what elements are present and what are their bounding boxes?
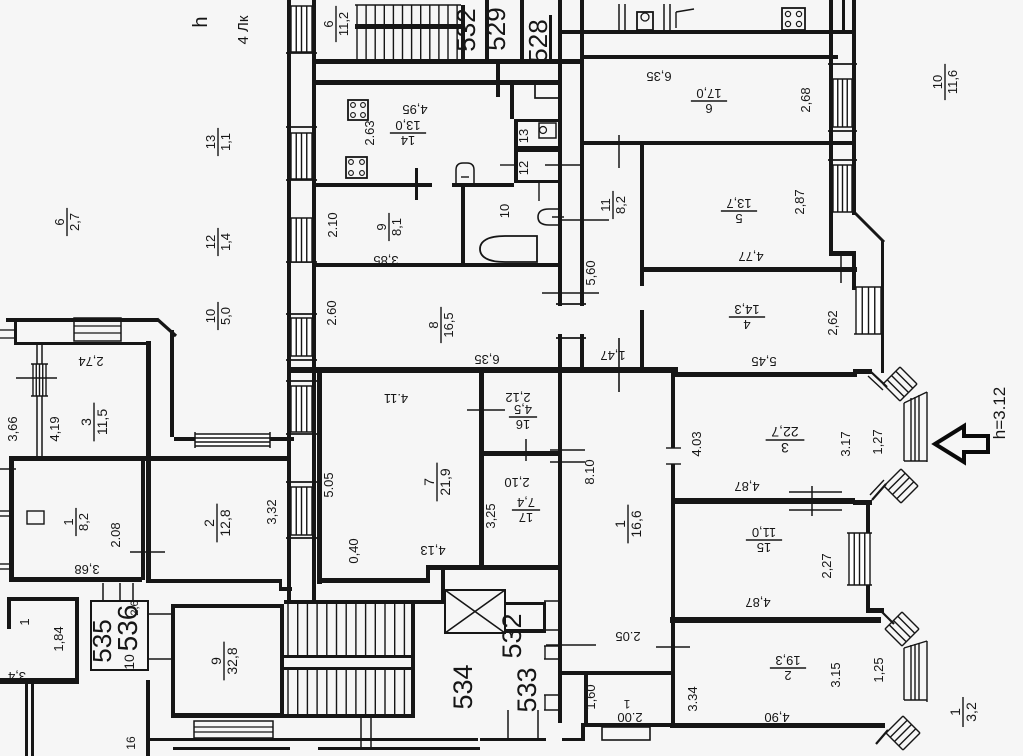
svg-text:0,40: 0,40 — [346, 538, 361, 563]
bathtub — [480, 236, 537, 262]
label 10/5.0 — [203, 302, 233, 330]
door tick corridor south — [546, 644, 596, 646]
tick room3 W — [16, 377, 57, 379]
elevator — [445, 590, 505, 633]
svg-text:532: 532 — [451, 8, 481, 51]
svg-text:11,6: 11,6 — [945, 70, 960, 94]
svg-text:4 Лк: 4 Лк — [235, 15, 252, 44]
bay3 top ledge — [853, 369, 872, 374]
label 6/2.7 — [52, 208, 82, 236]
svg-text:4,19: 4,19 — [47, 416, 62, 441]
svg-text:5: 5 — [735, 211, 742, 226]
north door — [675, 12, 677, 28]
svg-text:2,87: 2,87 — [792, 189, 807, 214]
svg-text:14: 14 — [401, 133, 415, 148]
svg-text:4,87: 4,87 — [734, 479, 759, 494]
label 5/13.7 — [721, 196, 757, 226]
svg-text:11,5: 11,5 — [94, 409, 110, 435]
right wall ties — [828, 63, 857, 65]
svg-text:13: 13 — [516, 129, 531, 143]
svg-text:1,25: 1,25 — [871, 657, 886, 682]
svg-text:9: 9 — [374, 223, 389, 230]
svg-text:11,2: 11,2 — [336, 12, 351, 36]
stairs bottom top wall — [284, 600, 445, 604]
svg-text:12: 12 — [516, 161, 531, 175]
svg-text:7: 7 — [421, 478, 437, 486]
wc13 toilet — [539, 123, 556, 138]
rooms 16/17 divider — [484, 451, 558, 456]
svg-text:h: h — [190, 16, 212, 27]
corridor1 bottom wall — [562, 671, 671, 675]
svg-text:14,3: 14,3 — [734, 302, 759, 317]
bay2 window on top diagonal — [885, 612, 919, 646]
svg-text:3,66: 3,66 — [5, 416, 20, 441]
window W band y218-262 — [291, 218, 312, 262]
svg-text:2.10: 2.10 — [325, 212, 340, 237]
svg-text:3,32: 3,32 — [264, 499, 279, 524]
west outer wall lower — [9, 458, 14, 580]
rooms 9/8 divider wall — [316, 263, 558, 267]
SW double wall — [25, 684, 28, 756]
label 7/21.9 — [421, 463, 453, 502]
corridor534 top walls — [505, 602, 546, 605]
svg-text:2.60: 2.60 — [324, 300, 339, 325]
wall x485 top — [485, 0, 489, 61]
svg-text:21,9: 21,9 — [437, 468, 453, 495]
label 2/12.8 — [201, 504, 233, 543]
svg-text:4,5: 4,5 — [514, 402, 532, 417]
svg-text:6,35: 6,35 — [474, 352, 499, 367]
svg-text:10: 10 — [203, 309, 218, 323]
balcony box room3 — [74, 318, 121, 341]
svg-text:3: 3 — [781, 440, 789, 456]
wall between rooms 15 and 2 — [670, 617, 881, 623]
label 12/1.4 — [203, 228, 233, 256]
kitchen stove 2 — [346, 157, 367, 178]
wall x520 top — [520, 0, 524, 61]
svg-text:10: 10 — [497, 204, 512, 218]
label 11/8.2 — [598, 191, 628, 219]
bay2 top ledge — [866, 608, 884, 613]
bay3 top corner diag — [870, 371, 887, 387]
wall x147 south — [146, 680, 150, 756]
svg-text:9: 9 — [208, 657, 224, 665]
svg-text:3,25: 3,25 — [483, 503, 498, 528]
window W band y318-356 — [291, 318, 312, 356]
label 13/1.1 — [203, 128, 233, 156]
room 7 bottom wall left — [317, 578, 430, 583]
label 1/16.6 — [612, 505, 644, 544]
vestibule ticks — [148, 613, 171, 615]
svg-text:5,60: 5,60 — [583, 260, 598, 285]
svg-text:8,2: 8,2 — [613, 196, 628, 214]
kitchen stove 1 — [348, 100, 368, 120]
svg-text:8,2: 8,2 — [76, 513, 91, 531]
north stove — [782, 8, 805, 30]
svg-text:3,2: 3,2 — [963, 702, 979, 722]
svg-text:2,10: 2,10 — [504, 475, 529, 490]
label 14/13.0 — [390, 118, 426, 148]
arrow h312 — [935, 426, 988, 462]
south outer walls — [148, 738, 478, 741]
svg-text:12,8: 12,8 — [217, 509, 233, 536]
label 2/19.3 — [770, 653, 806, 683]
stairs mid band — [284, 655, 415, 658]
svg-text:13: 13 — [203, 135, 218, 149]
dim marks at room3/15 wall — [789, 491, 842, 493]
svg-text:6: 6 — [705, 101, 712, 116]
svg-text:533: 533 — [512, 667, 542, 712]
svg-text:536: 536 — [112, 605, 143, 652]
west wing edge ticks — [0, 329, 14, 331]
north stub x619 — [618, 4, 620, 30]
svg-text:10: 10 — [121, 654, 137, 670]
dim tick x619 room6 — [618, 135, 620, 168]
room 5/4 divider wall — [644, 267, 857, 272]
window E y79-127 — [833, 79, 852, 127]
door lines south — [360, 718, 362, 747]
kitchen sink — [456, 163, 474, 184]
stairwell 4Lk hatch top — [355, 4, 461, 6]
svg-text:2: 2 — [201, 519, 217, 527]
window room2 top — [195, 434, 270, 446]
svg-text:8.10: 8.10 — [582, 459, 597, 484]
door tick room2 — [656, 646, 690, 648]
bay3 east window slanted caps — [904, 392, 927, 403]
room 4 right wall step — [829, 215, 833, 256]
svg-text:1,84: 1,84 — [51, 626, 66, 651]
svg-text:1: 1 — [17, 618, 32, 625]
label 3/22.7 — [766, 424, 805, 456]
room 2 south wall — [149, 579, 279, 583]
svg-text:1: 1 — [947, 708, 963, 716]
north stub x664 — [663, 4, 665, 30]
label 15/11.0 — [746, 525, 782, 555]
west wing top wall cap — [14, 318, 17, 345]
label 8/16.5 — [426, 307, 456, 343]
room 3(11.5) west wall — [36, 345, 38, 460]
svg-text:1,47: 1,47 — [600, 348, 625, 363]
svg-text:4.03: 4.03 — [689, 431, 704, 456]
svg-text:1,1: 1,1 — [218, 133, 233, 151]
svg-text:3,85: 3,85 — [373, 253, 398, 268]
svg-text:1: 1 — [623, 697, 630, 711]
dim tick room4 right — [820, 268, 856, 270]
label 1/8.2 — [61, 508, 91, 536]
wall x441 — [441, 565, 445, 604]
svg-text:529: 529 — [481, 7, 511, 50]
radiator room1 — [27, 511, 44, 524]
svg-text:2,74: 2,74 — [78, 354, 103, 369]
window room15 E — [849, 533, 870, 585]
svg-text:2,68: 2,68 — [798, 87, 813, 112]
vestibule doors — [102, 583, 104, 601]
svg-text:h=3.12: h=3.12 — [990, 387, 1009, 439]
wc 13/12 walls — [514, 119, 518, 183]
stairs east wall — [411, 604, 415, 718]
hall SW south wall — [0, 678, 79, 684]
svg-text:11,0: 11,0 — [752, 525, 776, 540]
right outer wall upper — [829, 0, 833, 215]
wall between rooms 3 and 15 — [674, 498, 855, 504]
svg-text:13,7: 13,7 — [726, 196, 751, 211]
dim tick x619 — [618, 338, 620, 392]
rooms 1/2 divider — [141, 460, 145, 580]
bath door tick — [538, 183, 540, 201]
svg-text:4,95: 4,95 — [402, 102, 427, 117]
svg-text:1,60: 1,60 — [583, 684, 598, 709]
east outer wall x881 — [881, 241, 884, 373]
kitchen top wall — [316, 80, 558, 85]
corridor spine right wall — [580, 0, 584, 371]
svg-text:6: 6 — [321, 20, 336, 27]
hall SW top wall — [7, 597, 79, 601]
svg-text:16,5: 16,5 — [441, 312, 456, 337]
corridor spine left wall — [558, 0, 562, 723]
spine south end — [581, 723, 585, 741]
svg-text:8,1: 8,1 — [389, 218, 404, 236]
long wall y367 rooms 8/7/16 and corridor — [288, 367, 678, 373]
bay3 window on bottom diagonal — [884, 469, 918, 503]
room 9 steps — [194, 721, 273, 738]
rooms 1/2 top wall — [9, 456, 291, 461]
svg-text:4,77: 4,77 — [738, 249, 763, 264]
svg-text:3.34: 3.34 — [685, 686, 700, 711]
stair block bottom wall — [316, 59, 584, 64]
svg-text:22,7: 22,7 — [771, 424, 798, 440]
svg-text:534: 534 — [448, 664, 478, 709]
label 4/14.3 — [729, 302, 765, 332]
small hall walls — [584, 675, 588, 723]
window E y165-212 — [833, 165, 852, 212]
svg-text:4: 4 — [743, 317, 750, 332]
svg-text:13,0: 13,0 — [395, 118, 420, 133]
bay2 window on bottom diagonal — [886, 716, 920, 750]
window W band y487-535 — [291, 487, 312, 535]
room 7 step — [426, 570, 430, 582]
room 2 south wall — [670, 723, 885, 728]
bay3 bottom ledge — [853, 500, 872, 505]
room 7 east wall — [479, 372, 484, 570]
west wing diagonal corner — [157, 319, 176, 336]
label 3/11.5 — [78, 403, 110, 442]
tick y469 — [0, 468, 16, 470]
svg-text:6: 6 — [52, 218, 67, 225]
svg-text:3.17: 3.17 — [838, 431, 853, 456]
room 3(11.5)/2 east wall — [146, 341, 151, 583]
vestibule 535 box — [91, 601, 148, 670]
svg-text:3: 3 — [78, 418, 94, 426]
room 7 bottom wall right — [426, 565, 561, 570]
window room3 W — [33, 364, 46, 396]
label 10/11.6 right — [930, 64, 960, 100]
533 door lines — [507, 710, 509, 738]
wall x549 top — [549, 15, 552, 61]
left outer double wall band of west wing — [287, 0, 291, 604]
vent box — [535, 83, 559, 98]
svg-text:15: 15 — [757, 540, 771, 555]
svg-text:6,35: 6,35 — [646, 69, 671, 84]
hall SW east wall — [75, 601, 79, 684]
svg-text:2,62: 2,62 — [825, 310, 840, 335]
west band wall ties — [286, 52, 317, 54]
label 9/32.8 — [208, 642, 240, 681]
room 1 south wall — [9, 577, 142, 582]
door ticks y450 y462 spine — [550, 449, 585, 451]
svg-text:17: 17 — [519, 510, 533, 525]
svg-text:17,0: 17,0 — [696, 86, 721, 101]
label 1/3.2 — [947, 697, 979, 727]
svg-text:4,87: 4,87 — [745, 595, 770, 610]
room 11 east wall — [640, 145, 644, 371]
label 9/8.1 — [374, 213, 404, 241]
kitchen east wall — [510, 84, 514, 119]
south wall under corridor — [584, 723, 885, 727]
door tick y164 — [545, 164, 584, 166]
svg-text:528: 528 — [523, 19, 553, 62]
svg-text:2.63: 2.63 — [362, 120, 377, 145]
north toilet — [637, 12, 653, 30]
svg-text:2.08: 2.08 — [108, 522, 123, 547]
bay3 window on top diagonal — [883, 367, 917, 401]
label 17/7.4 — [512, 495, 540, 525]
tick room16/17 — [525, 439, 527, 461]
svg-text:3,4: 3,4 — [8, 669, 26, 684]
svg-text:16,6: 16,6 — [628, 510, 644, 537]
svg-text:3,68: 3,68 — [74, 562, 99, 577]
bay2 bottom corner diag — [876, 730, 888, 744]
window room4 E — [856, 287, 881, 334]
room 7 west wall — [317, 372, 322, 584]
svg-text:2,7: 2,7 — [67, 213, 82, 231]
stairs hatch upper — [287, 604, 289, 655]
room15 east wall — [866, 505, 870, 533]
west wing outer top wall — [6, 318, 158, 322]
rooms 3/15/2 west wall — [671, 373, 675, 727]
tick — [500, 164, 514, 166]
svg-text:12: 12 — [203, 235, 218, 249]
south wall right part — [480, 738, 546, 741]
label 6/11.2 — [321, 6, 351, 42]
corridor door opening y303-337 — [556, 306, 586, 334]
svg-text:2.05: 2.05 — [615, 629, 640, 644]
bay2 east window — [904, 641, 927, 648]
kitchen door line — [415, 168, 418, 200]
door tick y220 — [559, 219, 609, 221]
door tick y293 — [542, 292, 599, 294]
window W band y133-179 — [291, 133, 312, 179]
svg-text:5,45: 5,45 — [751, 354, 776, 369]
door tick room1 — [130, 551, 165, 553]
bay2 top corner diag — [882, 612, 894, 624]
courtyard east wall — [170, 330, 174, 437]
svg-text:1,27: 1,27 — [870, 429, 885, 454]
svg-text:4,90: 4,90 — [764, 710, 789, 725]
svg-text:532: 532 — [497, 613, 527, 658]
room 6 top wall — [582, 55, 838, 59]
north apartment wall y30 — [560, 30, 856, 34]
svg-text:10: 10 — [930, 75, 945, 89]
svg-text:2.00: 2.00 — [617, 710, 642, 725]
svg-text:5.05: 5.05 — [321, 472, 336, 497]
svg-text:1,4: 1,4 — [218, 233, 233, 251]
stairs bottom wall — [284, 714, 415, 718]
room 9(32.8) walls — [171, 608, 175, 717]
window W band y5-52 — [291, 6, 312, 52]
room 6 bottom wall — [582, 141, 856, 145]
svg-text:5,0: 5,0 — [218, 307, 233, 325]
room 3 top wall — [671, 372, 857, 377]
svg-text:4,13: 4,13 — [420, 543, 445, 558]
svg-text:1: 1 — [612, 520, 628, 528]
hall SW west wall — [7, 601, 11, 629]
window marks W — [0, 510, 14, 512]
NE diagonal wall — [855, 213, 884, 242]
svg-text:7,4: 7,4 — [517, 495, 535, 510]
svg-text:8: 8 — [426, 321, 441, 328]
svg-text:32,8: 32,8 — [224, 647, 240, 674]
svg-text:16: 16 — [124, 736, 138, 750]
svg-text:2: 2 — [784, 668, 791, 683]
corridor stub x496 — [496, 59, 500, 97]
svg-text:11: 11 — [598, 198, 613, 212]
spine pilasters — [544, 600, 562, 602]
svg-text:1: 1 — [61, 518, 76, 525]
bath/room9 divider — [461, 187, 465, 267]
svg-text:16: 16 — [516, 417, 530, 432]
svg-text:4.11: 4.11 — [384, 391, 408, 406]
door tick room16 — [467, 409, 505, 411]
svg-text:19,3: 19,3 — [775, 653, 800, 668]
courtyard bottom wall — [174, 437, 294, 441]
svg-text:3.15: 3.15 — [828, 662, 843, 687]
step box south — [602, 727, 650, 740]
window W band y386-432 — [291, 386, 312, 432]
label 6/17.0 — [691, 86, 727, 116]
bay3 bottom corner diag — [872, 484, 886, 500]
label 16/4.5 — [509, 402, 537, 432]
bath toilet — [538, 209, 559, 225]
kitchen bottom wall — [316, 183, 432, 187]
svg-text:2,27: 2,27 — [819, 553, 834, 578]
stairs hatch lower — [287, 670, 289, 714]
door gap room3 west — [671, 448, 675, 464]
